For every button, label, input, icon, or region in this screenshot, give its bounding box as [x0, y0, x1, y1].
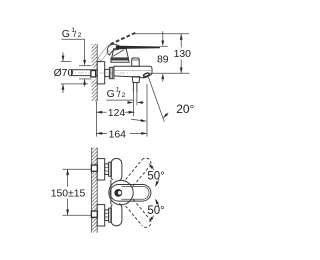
svg-text:Ø70: Ø70: [54, 68, 74, 79]
svg-text:2: 2: [122, 92, 126, 99]
20° angle: tilted leg: [148, 77, 164, 122]
20° arrow at vertical leg: [131, 119, 141, 120]
dashed lever -50° (down): [126, 199, 153, 229]
diverter knob: [132, 58, 140, 66]
body bar: [111, 158, 122, 181]
lever hub dark detail: [114, 189, 122, 197]
89 dimension: [162, 31, 164, 40]
124 dimension: [96, 111, 106, 113]
wall socket fitting G1/2: [91, 71, 96, 78]
spout outlet reference line: [150, 72, 189, 74]
closed-lever extension line: [160, 45, 168, 47]
svg-text:2: 2: [78, 32, 82, 39]
wall face extension line (down): [95, 101, 97, 137]
extension stubs at escutcheon edges: [61, 60, 71, 62]
cartridge circle: [109, 180, 133, 204]
svg-text:20°: 20°: [176, 102, 194, 116]
shower pipe edge extension ticks: [132, 93, 134, 117]
lever hub: [107, 44, 119, 55]
union nuts (top view): [105, 162, 112, 176]
cap base dark band: [111, 57, 130, 60]
open lever hub ghost: [98, 44, 111, 58]
shower pipe: [132, 83, 134, 93]
svg-text:G: G: [62, 29, 70, 40]
svg-text:/: /: [74, 29, 77, 40]
open lever (dashed): [110, 33, 135, 45]
escutcheons (top view): [97, 159, 105, 180]
shower outlet nut: [132, 77, 140, 83]
extension stubs at thread edges: [79, 65, 91, 67]
spout mouth / aerator: [143, 75, 150, 78]
G1/2 leader: [61, 38, 84, 40]
shower thread diameter arrows: [127, 102, 130, 104]
50° lower label: [157, 200, 159, 206]
body inner line: [115, 69, 152, 71]
wall band: [92, 148, 98, 233]
svg-text:89: 89: [157, 55, 169, 66]
svg-text:164: 164: [109, 129, 127, 140]
svg-text:124: 124: [108, 108, 126, 119]
cartridge cap: [111, 49, 129, 62]
svg-text:50°: 50°: [147, 205, 164, 217]
wall socket squares (top view): [91, 165, 97, 171]
cap inner diagonal: [113, 50, 124, 56]
130 dimension: [180, 34, 182, 48]
svg-text:130: 130: [174, 49, 192, 60]
pipe centerline: [68, 72, 129, 74]
union neck: [105, 69, 110, 76]
svg-text:50°: 50°: [147, 170, 164, 182]
164 dimension: [96, 132, 107, 134]
dashed lever +50° (up): [126, 156, 153, 186]
150 dim extension lines: [63, 168, 92, 170]
supply pipe stub in wall: [72, 70, 99, 76]
spout tip extension line: [146, 84, 148, 137]
union nut: [109, 67, 114, 78]
wall (hatched): [92, 44, 98, 101]
solid lever (top view): [110, 185, 151, 202]
open-lever top extension line: [135, 33, 189, 35]
20° arrow at tilted leg: [165, 113, 168, 116]
closed lever blade: [116, 46, 160, 49]
escutcheon (Ø70 flange): [97, 62, 105, 84]
svg-text:G: G: [107, 89, 115, 100]
svg-text:/: /: [118, 89, 121, 100]
150±15 dimension: [67, 169, 69, 186]
50° upper label: [151, 165, 154, 170]
faucet body: [114, 66, 152, 78]
svg-text:150±15: 150±15: [51, 188, 86, 199]
Ø70 dimension: [62, 52, 64, 61]
